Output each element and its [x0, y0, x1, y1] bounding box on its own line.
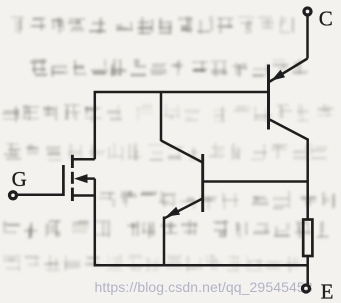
svg-text:G: G	[12, 167, 27, 191]
wire: Q2 base horizontal	[203, 180, 308, 183]
MOSFET M1 source stub	[72, 194, 94, 197]
transistor Q2 emitter wire with arrow pointing out	[164, 199, 202, 219]
MOSFET M1 drain stub	[72, 158, 94, 161]
wire: right vertical (Q1 collector to resistor)	[306, 139, 309, 220]
wire: gate lead	[18, 194, 64, 197]
transistor Q2 (NPN) collector diagonal	[161, 141, 203, 163]
terminal G	[10, 192, 17, 199]
MOSFET M1 channel dash middle	[71, 172, 74, 184]
svg-text:C: C	[319, 6, 333, 30]
wire: bottom horizontal (emitter node)	[94, 264, 308, 267]
wire: C lead vertical	[306, 16, 309, 59]
transistor Q1 (PNP) emitter wire with arrow into bar	[269, 59, 308, 83]
terminal C	[304, 8, 311, 15]
csdn url watermark	[95, 279, 335, 295]
wire: top horizontal (node: PNP base / MOSFET drain)	[94, 91, 269, 94]
wire: resistor bottom to E terminal	[306, 256, 309, 284]
wire: drain vertical to top node	[94, 92, 97, 159]
transistor Q1 collector wire	[270, 120, 308, 140]
terminal E	[303, 285, 310, 292]
transistor Q1 base bar	[267, 65, 270, 130]
transistor Q2 base bar	[201, 154, 204, 212]
wire: Q2 collector vertical from top node	[160, 92, 163, 141]
MOSFET M1 gate bar	[62, 165, 65, 196]
wire: Q2 emitter vertical to bottom wire	[163, 217, 166, 266]
MOSFET M1 channel dash bottom	[71, 188, 74, 201]
MOSFET M1 channel dash top	[71, 155, 74, 168]
svg-text:E: E	[321, 279, 334, 303]
resistor R1	[303, 220, 312, 257]
wire: source vertical to bottom wire	[94, 179, 97, 266]
MOSFET M1 body arrow	[74, 174, 88, 183]
